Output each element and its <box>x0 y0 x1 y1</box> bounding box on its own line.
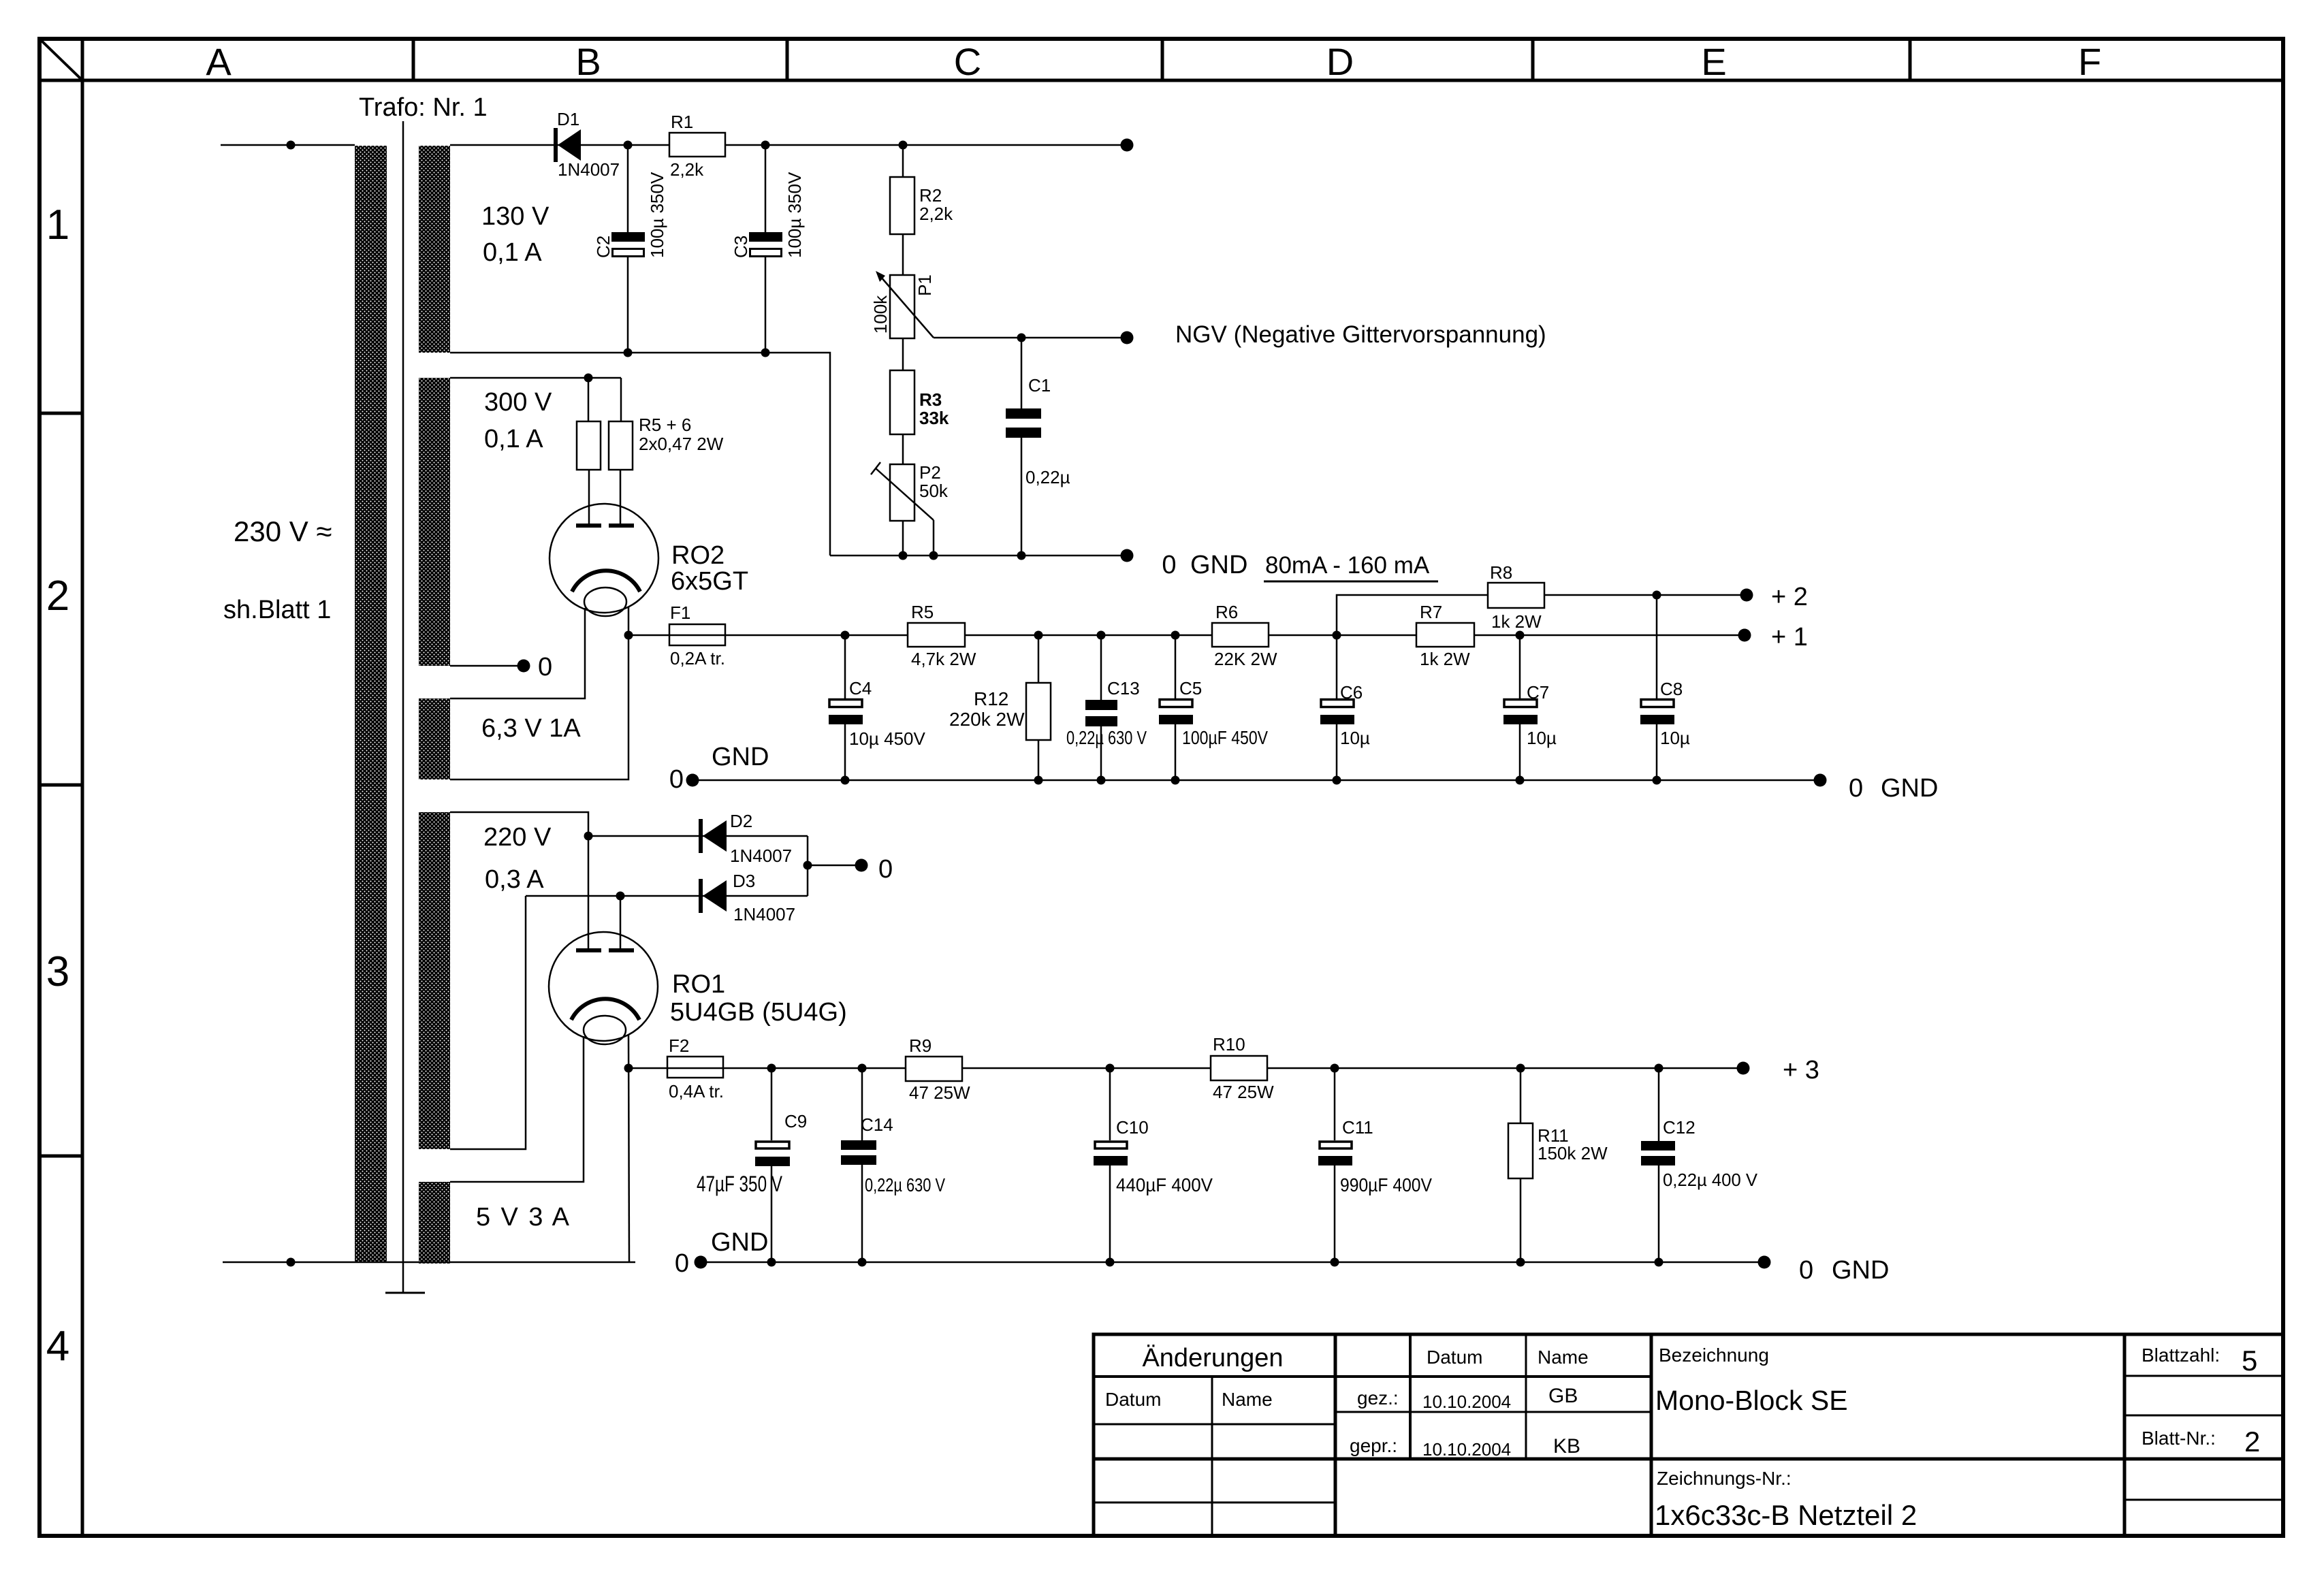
svg-text:10µ: 10µ <box>1660 728 1690 748</box>
svg-text:0: 0 <box>878 855 893 884</box>
svg-text:P2: P2 <box>919 462 941 483</box>
svg-text:R5 + 6: R5 + 6 <box>639 415 691 435</box>
terminal middle GND right <box>1814 774 1827 787</box>
svg-text:E: E <box>1701 40 1726 83</box>
svg-text:R10: R10 <box>1213 1034 1245 1055</box>
svg-text:gepr.:: gepr.: <box>1350 1435 1397 1456</box>
wire RO1 plate lead left <box>588 836 590 949</box>
capacitor C3 <box>731 145 805 353</box>
svg-text:10.10.2004: 10.10.2004 <box>1422 1439 1511 1460</box>
svg-text:0: 0 <box>1849 774 1863 803</box>
capacitor C14 <box>841 1068 945 1262</box>
svg-text:RO2: RO2 <box>671 541 725 570</box>
svg-text:0,22µ 400 V: 0,22µ 400 V <box>1663 1170 1758 1190</box>
resistor R11 <box>1508 1068 1608 1262</box>
svg-text:6,3 V 1A: 6,3 V 1A <box>481 714 581 743</box>
node mid GND / C7 <box>1516 776 1525 785</box>
node +1 rail / C4 <box>841 631 850 640</box>
svg-text:300 V: 300 V <box>484 388 552 417</box>
terminal bottom GND right <box>1758 1256 1771 1269</box>
resistor R5 <box>908 602 976 669</box>
node +3 / C9 <box>767 1064 776 1073</box>
wire middle GND rail <box>693 779 1820 782</box>
node mid GND / C8 <box>1653 776 1661 785</box>
node +3 / C11 <box>1331 1064 1339 1073</box>
wire bottom GND rail <box>701 1261 1764 1264</box>
svg-text:0,22µ 630 V: 0,22µ 630 V <box>865 1174 945 1195</box>
node top rail / C3 <box>761 141 770 150</box>
node mid GND / C13 <box>1097 776 1106 785</box>
node +3 / C12 <box>1655 1064 1664 1073</box>
svg-text:Datum: Datum <box>1427 1347 1482 1368</box>
svg-text:R12: R12 <box>974 688 1008 709</box>
svg-text:Blatt-Nr.:: Blatt-Nr.: <box>2142 1428 2216 1449</box>
terminal bottom GND left <box>695 1256 707 1269</box>
wire +2 branch <box>1337 595 1747 635</box>
bias chain vertical wire <box>902 145 904 556</box>
title block header row line <box>1094 1375 1651 1378</box>
transformer core ground bar <box>385 1292 425 1294</box>
terminal +2 <box>1740 589 1753 602</box>
capacitor C13 <box>1066 635 1147 780</box>
svg-text:4: 4 <box>46 1323 69 1370</box>
svg-text:1N4007: 1N4007 <box>733 904 795 924</box>
node mid GND / C5 <box>1171 776 1180 785</box>
title block gez row line <box>1335 1411 1651 1413</box>
svg-text:C7: C7 <box>1527 682 1549 703</box>
svg-text:+ 1: + 1 <box>1771 623 1808 652</box>
svg-text:D2: D2 <box>730 811 752 831</box>
wire 220V top <box>450 812 588 836</box>
svg-text:0,3 A: 0,3 A <box>485 865 544 894</box>
terminal NGV <box>1121 332 1134 344</box>
svg-text:230 V ≈: 230 V ≈ <box>234 515 332 547</box>
wire +1 rail <box>628 634 1745 637</box>
node bias GND / P2 wiper <box>929 551 938 560</box>
column divider B|C <box>786 39 789 80</box>
node bottom GND / C10 <box>1106 1258 1115 1267</box>
svg-text:1k 2W: 1k 2W <box>1420 649 1470 669</box>
row divider 1|2 <box>39 412 82 415</box>
node +1 rail / cathode <box>624 631 633 640</box>
svg-text:1N4007: 1N4007 <box>558 159 620 180</box>
svg-text:NGV (Negative Gittervorspannun: NGV (Negative Gittervorspannung) <box>1175 321 1546 348</box>
svg-text:C9: C9 <box>784 1111 807 1131</box>
svg-text:R1: R1 <box>671 112 693 132</box>
tube RO1 5U4GB <box>549 932 847 1044</box>
capacitor C1 <box>1006 338 1070 556</box>
wire RO2 cathode lead <box>450 607 628 779</box>
svg-text:0,1 A: 0,1 A <box>483 238 542 267</box>
row divider 3|4 <box>39 1155 82 1158</box>
wire RO1 filament lead right / down <box>628 1035 629 1262</box>
svg-text:47 25W: 47 25W <box>1213 1082 1274 1102</box>
title block left row line 2 <box>1094 1424 1335 1426</box>
fuse F2 <box>667 1035 724 1101</box>
svg-text:GND: GND <box>712 743 769 771</box>
svg-text:22K 2W: 22K 2W <box>1214 649 1277 669</box>
svg-text:RO1: RO1 <box>672 970 725 999</box>
svg-text:sh.Blatt 1: sh.Blatt 1 <box>223 596 331 624</box>
svg-text:Änderungen: Änderungen <box>1142 1344 1283 1372</box>
svg-text:Name: Name <box>1222 1389 1273 1410</box>
capacitor C8 <box>1640 595 1690 780</box>
svg-text:50k: 50k <box>919 481 949 501</box>
svg-text:2x0,47 2W: 2x0,47 2W <box>639 434 724 454</box>
diode D3 <box>701 871 795 924</box>
svg-text:C13: C13 <box>1107 678 1140 698</box>
title block outer <box>1094 1334 2283 1536</box>
svg-text:0,22µ: 0,22µ <box>1025 467 1070 487</box>
node +3 / C14 <box>858 1064 867 1073</box>
capacitor C10 <box>1094 1068 1213 1262</box>
svg-text:B: B <box>575 40 601 83</box>
node +3 / C10 <box>1106 1064 1115 1073</box>
fuse F1 <box>669 602 725 669</box>
node bottom GND / C9 <box>767 1258 776 1267</box>
svg-text:P1: P1 <box>914 274 935 296</box>
node 300V / R5+6 <box>584 374 593 383</box>
svg-text:+ 2: + 2 <box>1771 583 1808 611</box>
svg-text:1N4007: 1N4007 <box>730 846 792 866</box>
capacitor C12 <box>1641 1068 1758 1262</box>
transformer secondary 300V winding bar <box>419 378 450 666</box>
terminal +1 <box>1738 629 1751 642</box>
node return / C3 <box>761 349 770 357</box>
node mid GND / C6 <box>1333 776 1341 785</box>
svg-text:10.10.2004: 10.10.2004 <box>1422 1392 1511 1412</box>
svg-text:F2: F2 <box>669 1035 689 1056</box>
svg-text:1k 2W: 1k 2W <box>1491 611 1542 632</box>
resistor R12 <box>949 635 1051 780</box>
svg-text:+ 3: + 3 <box>1783 1056 1819 1084</box>
node top rail / R2 chain <box>899 141 908 150</box>
wire D2 row <box>588 835 808 837</box>
wire 130V top rail <box>450 144 1127 146</box>
node bottom GND / C14 <box>858 1258 867 1267</box>
border frame header bottom line <box>39 79 2283 82</box>
node mid GND / R12 <box>1034 776 1043 785</box>
diode D1 <box>556 109 620 180</box>
node D2 / plate lead <box>584 832 593 841</box>
svg-text:2,2k: 2,2k <box>670 159 704 180</box>
svg-text:Mono-Block SE: Mono-Block SE <box>1655 1385 1848 1416</box>
node D3 / plate lead <box>616 892 625 901</box>
svg-text:A: A <box>206 40 232 83</box>
svg-text:0: 0 <box>1799 1256 1813 1285</box>
svg-text:0: 0 <box>669 765 684 794</box>
resistor R3 <box>890 370 949 434</box>
node +2 / C8 <box>1653 591 1661 600</box>
title block main divider line <box>1094 1458 2283 1461</box>
wire primary top 230V <box>221 144 355 146</box>
wire 220V bottom <box>450 896 526 1149</box>
svg-text:100k: 100k <box>870 295 891 334</box>
svg-text:Blattzahl:: Blattzahl: <box>2142 1345 2220 1366</box>
svg-text:R7: R7 <box>1420 602 1442 622</box>
svg-text:47 25W: 47 25W <box>909 1082 970 1103</box>
resistor R5+6 left <box>577 378 601 524</box>
wire RO1 filament lead left <box>450 1036 584 1182</box>
svg-text:C8: C8 <box>1660 679 1683 699</box>
node NGV / C1 <box>1017 334 1026 342</box>
title block divider gez/bezeichnung <box>1650 1334 1653 1536</box>
title block divider bezeichnung/blatt <box>2123 1334 2127 1536</box>
wire to 0 terminal <box>808 865 861 867</box>
svg-text:2: 2 <box>46 573 69 620</box>
svg-text:R2: R2 <box>919 185 942 206</box>
svg-text:1: 1 <box>46 202 69 248</box>
terminal top rail right <box>1121 139 1134 152</box>
title block gez col split 2 <box>1525 1334 1527 1459</box>
svg-text:Zeichnungs-Nr.:: Zeichnungs-Nr.: <box>1657 1468 1792 1489</box>
node bias GND / chain <box>899 551 908 560</box>
svg-text:10µ: 10µ <box>1340 728 1370 748</box>
svg-text:10µ 450V: 10µ 450V <box>849 728 926 749</box>
column divider C|D <box>1161 39 1164 80</box>
svg-text:990µF 400V: 990µF 400V <box>1340 1174 1432 1195</box>
svg-text:5 V 3 A: 5 V 3 A <box>476 1203 570 1232</box>
node diode join <box>803 861 812 870</box>
title block right rows <box>2124 1375 2283 1377</box>
node +3 / R11 <box>1516 1064 1525 1073</box>
svg-text:R9: R9 <box>909 1035 932 1056</box>
node primary bottom <box>287 1258 296 1267</box>
row divider 2|3 <box>39 784 82 787</box>
svg-text:gez.:: gez.: <box>1357 1387 1399 1409</box>
transformer core center line <box>402 121 404 1292</box>
capacitor C6 <box>1320 635 1370 780</box>
resistor R10 <box>1211 1034 1274 1102</box>
wire D3 row <box>526 895 808 897</box>
svg-text:4,7k 2W: 4,7k 2W <box>911 649 976 669</box>
terminal bias GND <box>1121 549 1134 562</box>
terminal middle GND left <box>686 774 699 787</box>
resistor R5+6 right <box>609 378 724 524</box>
transformer secondary 5V winding bar <box>419 1182 450 1264</box>
svg-text:C11: C11 <box>1342 1117 1373 1138</box>
wire NGV line <box>934 337 1127 339</box>
svg-text:100µF 450V: 100µF 450V <box>1182 727 1268 748</box>
svg-text:GND: GND <box>1832 1256 1889 1285</box>
svg-text:0,1 A: 0,1 A <box>484 425 543 453</box>
wire 300V zero tap <box>450 665 524 667</box>
capacitor C11 <box>1318 1068 1432 1262</box>
node +1 rail / C13 <box>1097 631 1106 640</box>
resistor R1 <box>669 112 725 180</box>
svg-text:2,2k: 2,2k <box>919 204 953 224</box>
column divider E|F <box>1909 39 1912 80</box>
svg-text:C12: C12 <box>1663 1117 1696 1138</box>
wire 130V return <box>450 353 830 556</box>
svg-text:D: D <box>1326 40 1354 83</box>
svg-text:6x5GT: 6x5GT <box>671 567 748 596</box>
svg-text:C: C <box>954 40 981 83</box>
wire primary bottom return <box>223 1261 635 1264</box>
svg-text:5: 5 <box>2242 1345 2257 1377</box>
capacitor C4 <box>829 635 926 780</box>
svg-text:0,4A tr.: 0,4A tr. <box>669 1081 724 1101</box>
svg-text:33k: 33k <box>919 408 949 428</box>
svg-text:R6: R6 <box>1215 602 1238 622</box>
tube RO2 6x5GT <box>550 504 748 616</box>
svg-text:0,22µ 630 V: 0,22µ 630 V <box>1066 727 1147 748</box>
svg-text:Datum: Datum <box>1105 1389 1161 1410</box>
resistor R2 <box>890 177 953 234</box>
svg-text:C3: C3 <box>731 236 751 258</box>
terminal 0 rectifier <box>855 859 868 872</box>
potentiometer P2 <box>871 462 949 556</box>
svg-text:C14: C14 <box>861 1114 893 1135</box>
svg-text:R3: R3 <box>919 389 942 410</box>
wire 300V top <box>450 377 621 379</box>
title block left col split <box>1211 1377 1213 1536</box>
svg-text:F: F <box>2078 40 2101 83</box>
svg-text:130 V: 130 V <box>481 202 550 231</box>
capacitor C9 <box>697 1068 807 1262</box>
svg-text:5U4GB (5U4G): 5U4GB (5U4G) <box>670 998 847 1027</box>
node +1 rail / C6 +2 branch <box>1333 631 1341 640</box>
wire +3 rail <box>628 1067 1743 1070</box>
svg-text:0: 0 <box>538 653 552 681</box>
wire RO2 heater lead left <box>450 608 585 698</box>
transformer primary winding bar <box>355 146 387 1262</box>
svg-text:0: 0 <box>1162 551 1176 579</box>
svg-text:80mA - 160 mA: 80mA - 160 mA <box>1265 552 1430 579</box>
node primary top <box>287 141 296 150</box>
diode D2 <box>701 811 792 866</box>
transformer secondary 220V winding bar <box>419 812 450 1149</box>
svg-text:GND: GND <box>711 1228 768 1257</box>
svg-text:C6: C6 <box>1340 682 1363 703</box>
svg-text:440µF 400V: 440µF 400V <box>1116 1174 1213 1195</box>
node mid GND / C4 <box>841 776 850 785</box>
svg-text:KB: KB <box>1553 1435 1580 1458</box>
wire RO1 plate lead right <box>620 896 622 949</box>
svg-text:C5: C5 <box>1179 678 1202 698</box>
svg-text:C4: C4 <box>849 678 872 698</box>
node +1 rail / C7 <box>1516 631 1525 640</box>
svg-text:0,2A tr.: 0,2A tr. <box>670 648 725 669</box>
svg-text:C2: C2 <box>593 236 614 258</box>
title block gez col split 1 <box>1409 1334 1412 1459</box>
border frame corner diagonal <box>39 39 82 80</box>
capacitor C5 <box>1159 635 1268 780</box>
potentiometer P1 <box>870 271 935 338</box>
resistor R9 <box>906 1035 970 1103</box>
terminal 300V zero <box>518 660 530 673</box>
node bottom GND / C11 <box>1331 1258 1339 1267</box>
svg-text:Bezeichnung: Bezeichnung <box>1659 1345 1769 1366</box>
svg-text:220k 2W: 220k 2W <box>949 709 1025 730</box>
svg-text:10µ: 10µ <box>1527 728 1557 748</box>
node bias GND / C1 <box>1017 551 1026 560</box>
svg-text:Name: Name <box>1538 1347 1589 1368</box>
title block left row line 3 <box>1094 1502 1335 1504</box>
svg-text:R5: R5 <box>911 602 934 622</box>
svg-text:C10: C10 <box>1116 1117 1149 1138</box>
node +1 rail / C5 <box>1171 631 1180 640</box>
node +1 rail / R12 <box>1034 631 1043 640</box>
wire D2-D3 join <box>807 836 809 896</box>
svg-text:100µ 350V: 100µ 350V <box>784 172 805 258</box>
svg-text:220 V: 220 V <box>483 823 552 852</box>
svg-text:F1: F1 <box>670 602 690 623</box>
svg-text:GB: GB <box>1548 1385 1578 1407</box>
svg-text:C1: C1 <box>1028 375 1051 396</box>
svg-text:Trafo: Nr. 1: Trafo: Nr. 1 <box>359 93 488 122</box>
svg-text:D1: D1 <box>557 109 579 129</box>
wire bias GND rail <box>830 555 1127 557</box>
resistor R8 <box>1488 562 1544 632</box>
svg-text:D3: D3 <box>733 871 755 891</box>
svg-text:R8: R8 <box>1490 562 1512 583</box>
transformer secondary 6.3V winding bar <box>419 698 450 779</box>
transformer secondary 130V winding bar <box>419 146 450 353</box>
svg-text:0: 0 <box>675 1249 689 1278</box>
resistor R7 <box>1416 602 1474 669</box>
svg-text:GND: GND <box>1190 551 1247 579</box>
capacitor C2 <box>593 145 667 353</box>
column divider D|E <box>1531 39 1535 80</box>
svg-text:1x6c33c-B Netzteil 2: 1x6c33c-B Netzteil 2 <box>1655 1499 1917 1531</box>
svg-text:GND: GND <box>1881 774 1938 803</box>
title block divider aenderungen/gez <box>1334 1334 1337 1536</box>
capacitor C7 <box>1503 635 1557 780</box>
svg-text:2: 2 <box>2244 1426 2260 1458</box>
svg-text:47µF 350 V: 47µF 350 V <box>697 1172 782 1196</box>
node return / C2 <box>624 349 633 357</box>
border frame left band line <box>81 39 84 1536</box>
column divider A|B <box>412 39 415 80</box>
node bottom GND / R11 <box>1516 1258 1525 1267</box>
node +3 / filament <box>624 1064 633 1073</box>
svg-text:100µ 350V: 100µ 350V <box>647 172 667 258</box>
node top rail / C2 <box>624 141 633 150</box>
svg-text:3: 3 <box>46 948 69 995</box>
terminal +3 <box>1737 1062 1750 1075</box>
node bottom GND / C12 <box>1655 1258 1664 1267</box>
svg-text:150k 2W: 150k 2W <box>1538 1143 1608 1163</box>
resistor R6 <box>1212 602 1277 669</box>
